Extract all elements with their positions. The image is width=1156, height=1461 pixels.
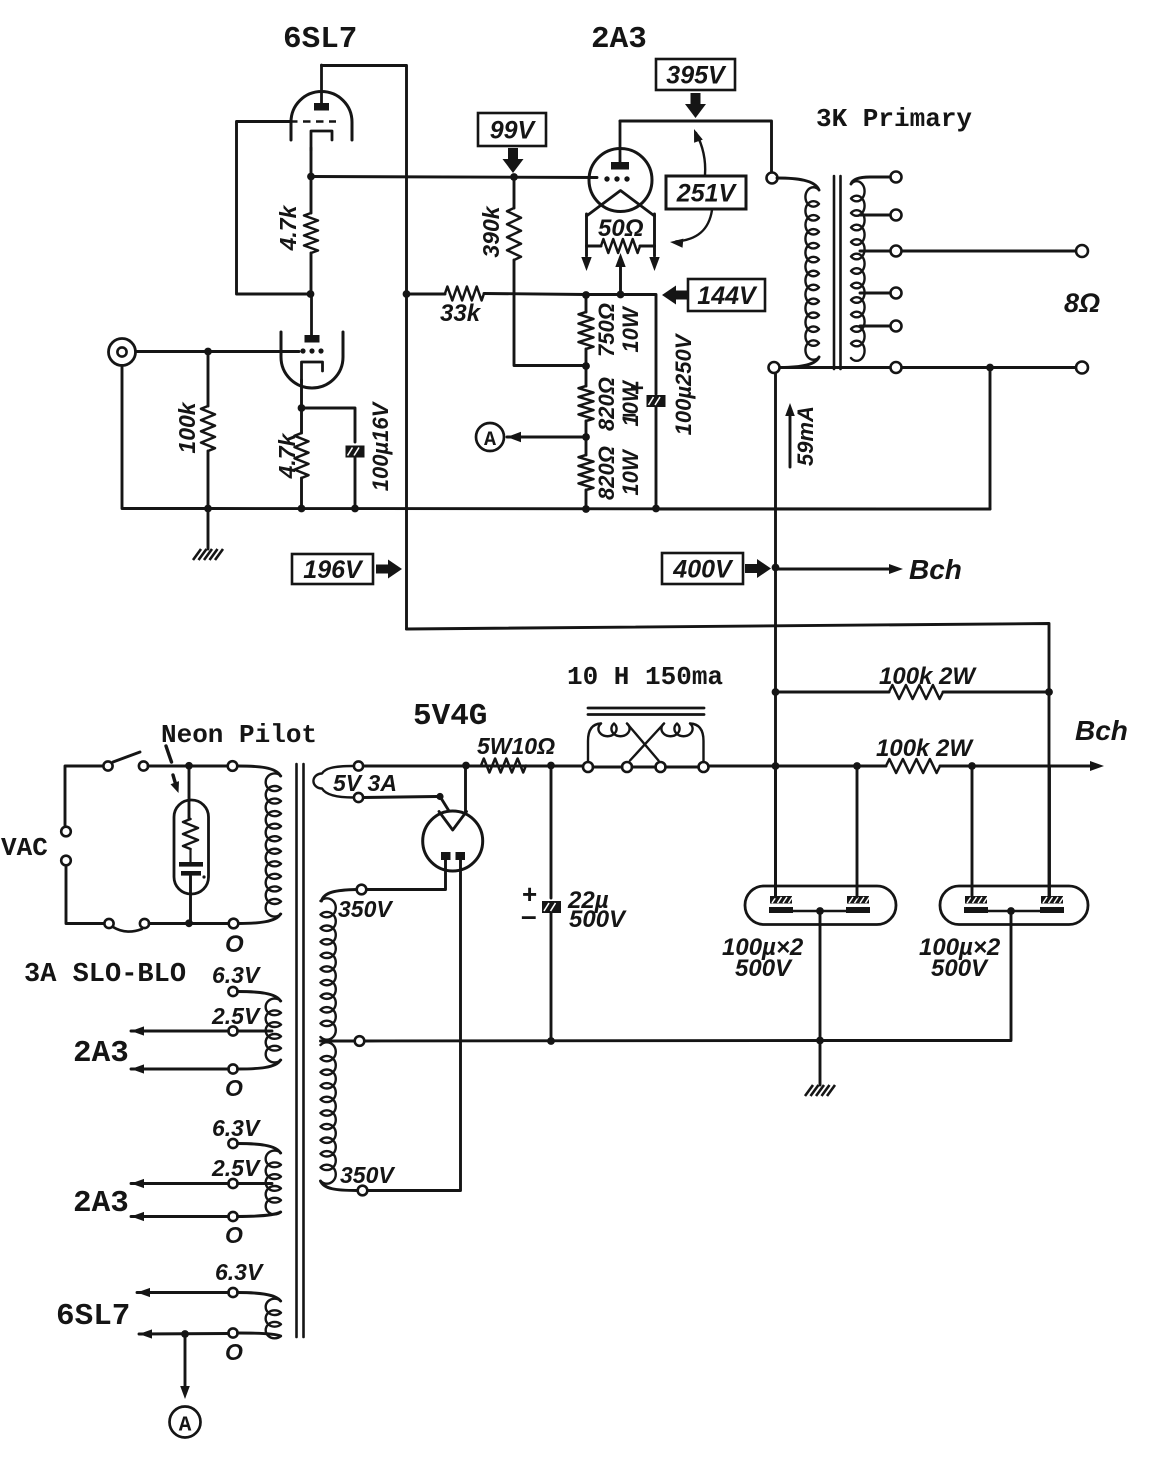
svg-text:–: – — [521, 900, 537, 931]
wire B+ continues down — [774, 568, 777, 899]
resistor 100k2W lower — [886, 759, 940, 773]
svg-text:Neon Pilot: Neon Pilot — [161, 720, 317, 750]
junction upper 100k2W right — [1045, 688, 1053, 696]
wire cathode rail y294 — [586, 295, 656, 395]
svg-text:750Ω: 750Ω — [594, 303, 619, 357]
capacitor 100u16V bypass — [346, 446, 365, 458]
junction wiper/cathode rail — [617, 291, 625, 299]
tube U1b plate — [305, 335, 320, 343]
resistor 100k2W upper — [777, 691, 889, 694]
arrow 0V g1 — [131, 1064, 144, 1073]
wire 196V feed line — [407, 624, 1050, 693]
wire 400V to Bch — [776, 568, 891, 571]
svg-text:A: A — [179, 1415, 192, 1438]
OPT primary bottom lead — [780, 357, 819, 368]
terminal 350V upper — [357, 885, 367, 895]
wire 2.5V g2 tap — [238, 1182, 273, 1185]
terminal 6.3V g2 — [228, 1139, 237, 1148]
choke terminals — [583, 762, 593, 772]
junction cathode/bypass — [298, 404, 306, 412]
wire 8ohm tap out — [902, 250, 1076, 253]
ground symbol main — [207, 508, 210, 549]
tube V3 filament notch — [439, 812, 467, 831]
svg-text:100µ250V: 100µ250V — [671, 332, 696, 435]
neon lamp NE1 envelope — [174, 800, 209, 894]
svg-text:–: – — [622, 398, 636, 428]
svg-text:99V: 99V — [490, 117, 537, 145]
junction input/100k — [204, 348, 212, 356]
junction 100k bottom on ground bus — [204, 505, 212, 513]
tube U1a cathode — [311, 131, 332, 150]
wire V3 plate1 to 350V upper — [367, 860, 446, 890]
junction chain bottom — [582, 505, 590, 513]
can C2 section b — [847, 896, 869, 904]
arrow 400V right — [757, 559, 771, 578]
svg-text:5W10Ω: 5W10Ω — [477, 733, 555, 759]
T1 HV winding upper — [321, 898, 336, 1039]
junction upper 100k2W left — [772, 688, 780, 696]
junction cap bottom — [351, 505, 359, 513]
OPT sec terminal 4 — [891, 288, 902, 299]
junction meter return — [181, 1330, 189, 1338]
svg-text:4.7k: 4.7k — [274, 432, 300, 479]
can C3 section b — [1041, 896, 1063, 904]
wire ground bus y=508 — [208, 507, 990, 510]
svg-text:6SL7: 6SL7 — [283, 22, 357, 57]
junction can1 right on rail — [853, 762, 861, 770]
svg-text:50Ω: 50Ω — [598, 215, 644, 242]
wire V3 filament right to rail — [464, 766, 467, 812]
wire U1a cathode down to y176 node — [310, 148, 313, 176]
svg-text:10W: 10W — [618, 448, 643, 495]
OPT primary bottom terminal — [769, 362, 780, 373]
svg-text:6.3V: 6.3V — [215, 1259, 264, 1285]
OPT sec tap lead 3 — [860, 250, 890, 253]
arrow 2.5V g1 — [131, 1026, 144, 1035]
svg-text:6.3V: 6.3V — [212, 1115, 261, 1141]
svg-text:3A SLO-BLO: 3A SLO-BLO — [24, 960, 186, 990]
tube V3 5V4G envelope — [423, 811, 483, 871]
T1 primary top terminal — [228, 761, 238, 771]
OPT primary winding — [805, 187, 819, 359]
tube U1b 6SL7 lower triode envelope — [281, 332, 343, 388]
terminal 8ohm hot — [1076, 245, 1088, 257]
terminal 5V bottom — [354, 793, 363, 802]
wire V3 plate2 to 350V lower — [368, 860, 461, 1191]
tube U1a plate — [314, 103, 329, 111]
OPT sec tap lead 4 — [860, 292, 890, 295]
resistor 33k horizontal — [445, 287, 484, 301]
resistor 5W10ohm — [526, 765, 546, 768]
OPT sec tap lead 5 — [860, 325, 890, 328]
T1 heater w2 top lead — [238, 1144, 281, 1154]
T1 heater winding 2 — [266, 1151, 281, 1215]
junction chain mid2 (meter tap) — [582, 433, 590, 441]
svg-text:350V: 350V — [338, 896, 393, 922]
T1 heater w1 top lead — [238, 992, 281, 1002]
svg-text:196V: 196V — [303, 556, 364, 584]
OPT sec terminal 1 — [891, 172, 902, 183]
svg-text:O: O — [225, 1222, 243, 1248]
arrow filament left down — [585, 246, 588, 256]
neon lamp resistor — [183, 819, 198, 849]
wire neon top lead — [188, 766, 191, 819]
T1 primary top lead — [238, 766, 281, 776]
svg-text:2A3: 2A3 — [73, 1036, 129, 1071]
neon lamp electrodes — [189, 849, 191, 862]
wire filament left leg — [585, 214, 588, 246]
svg-text:5V4G: 5V4G — [413, 699, 487, 734]
arrow hum wiper up — [619, 262, 622, 294]
junction B+ on rail — [772, 762, 780, 770]
wire cathode node to bypass cap — [302, 408, 356, 442]
can C2 outline — [745, 886, 896, 925]
arrow 0V g2 — [131, 1212, 144, 1221]
can C3 outline — [940, 886, 1088, 925]
svg-text:Bch: Bch — [1075, 715, 1128, 746]
wire secondary bottom line — [780, 366, 1075, 369]
resistor 50ohm hum balance — [587, 245, 602, 248]
curved arrow 251V to filament — [676, 210, 712, 242]
wire filament right leg — [653, 214, 656, 246]
svg-text:500V: 500V — [931, 955, 989, 982]
wire grid line y=176 to 2A3 grid — [311, 177, 597, 178]
can C3 section a — [965, 896, 987, 904]
svg-text:100k 2W: 100k 2W — [879, 663, 977, 690]
T1 HV center tap lead — [321, 1040, 355, 1043]
arrow 99V down — [503, 159, 524, 173]
arrow 196V right — [388, 560, 402, 579]
T1 heater w2 bottom lead — [238, 1212, 281, 1217]
T1 heater w1 bottom lead — [238, 1060, 281, 1069]
T1 HV winding lower — [321, 1042, 336, 1183]
tube U1a 6SL7 upper triode envelope — [291, 91, 352, 140]
arrow 144V left — [662, 286, 676, 305]
terminal 0V g1 — [228, 1064, 237, 1073]
choke core — [588, 707, 704, 710]
OPT sec terminal 3 — [891, 246, 902, 257]
wire secondary return to ground bus — [656, 368, 990, 510]
junction can2 left on rail — [968, 762, 976, 770]
dashed pointer to neon — [166, 746, 172, 762]
resistor 820ohm 10W upper — [585, 366, 588, 386]
tube V3 plates — [441, 852, 451, 860]
voltage box 395V — [656, 59, 735, 90]
terminal HV center tap — [355, 1036, 365, 1046]
T1 heater w3 top lead — [238, 1293, 281, 1302]
junction rectifier filament tap — [462, 762, 470, 770]
tube U1b grid dots — [300, 348, 305, 353]
arrow meter to chain — [507, 432, 521, 442]
terminal 6.3V g3 — [228, 1288, 237, 1297]
choke winding left — [588, 724, 601, 763]
junction chain top — [582, 291, 590, 299]
choke winding right — [690, 724, 704, 763]
wire 2A3 plate top rail — [620, 121, 772, 172]
resistor 820ohm 10W lower — [585, 437, 588, 455]
junction chain mid1 (390k tap) — [582, 362, 590, 370]
wire top to transformer — [148, 765, 227, 768]
junction 400V node — [772, 564, 780, 572]
svg-text:3K Primary: 3K Primary — [816, 104, 972, 134]
wire 5V bottom to rectifier — [364, 797, 438, 798]
capacitor 22u500V — [542, 901, 561, 913]
T1 5V winding — [313, 766, 353, 798]
T1 HV top lead — [322, 890, 357, 902]
switch S1b — [104, 919, 113, 928]
svg-text:395V: 395V — [666, 62, 727, 90]
can C3 common bar — [987, 910, 1042, 912]
arrow to meter A — [184, 1334, 187, 1390]
arrow 59mA — [789, 410, 792, 467]
svg-text:6SL7: 6SL7 — [56, 1299, 130, 1334]
voltage box 251V — [666, 176, 746, 209]
terminal 0V g2 — [228, 1212, 237, 1221]
terminal VAC bottom — [61, 856, 71, 866]
svg-text:33k: 33k — [440, 300, 482, 327]
tube V2 grid dots — [604, 176, 609, 181]
voltage box 99V — [478, 113, 546, 146]
wire B+ from OPT down — [774, 373, 777, 568]
svg-text:820Ω: 820Ω — [594, 446, 619, 500]
wire CT ground rail — [365, 1039, 827, 1042]
can C2 section a — [770, 896, 792, 904]
svg-text:500V: 500V — [569, 906, 627, 933]
arrow filament right down — [653, 246, 656, 256]
wire can C3 leads — [971, 766, 974, 897]
wire y294 node line with 33k — [407, 293, 446, 296]
svg-text:100µ16V: 100µ16V — [368, 400, 393, 491]
svg-text:251V: 251V — [676, 180, 738, 208]
junction 196V riser / 33k — [403, 290, 411, 298]
can C2 common bar — [792, 910, 847, 912]
wire 22u drop — [550, 766, 553, 898]
svg-text:2.5V: 2.5V — [211, 1155, 261, 1181]
svg-text:144V: 144V — [697, 282, 758, 310]
svg-text:2A3: 2A3 — [73, 1186, 129, 1221]
junction secondary return — [986, 364, 994, 372]
junction U1a cathode node — [307, 173, 315, 181]
svg-text:5V 3A: 5V 3A — [333, 770, 397, 796]
svg-text:100k: 100k — [174, 401, 200, 453]
resistor 390k vertical — [513, 177, 516, 208]
arrow 395V down — [685, 104, 706, 118]
curved arrow 251V to plate rail — [696, 133, 705, 175]
svg-text:59mA: 59mA — [793, 406, 818, 466]
meter circle A bottom — [170, 1407, 201, 1438]
resistor 4.7k (SRPP cathode) vertical — [310, 176, 313, 213]
OPT secondary winding — [851, 181, 865, 361]
svg-text:O: O — [225, 1075, 243, 1101]
junction 100u250V bottom — [652, 505, 660, 513]
svg-text:8Ω: 8Ω — [1064, 288, 1100, 318]
terminal 5V top — [354, 761, 363, 770]
junction 4.7k bottom — [298, 505, 306, 513]
wire can C3 to ground rail — [826, 911, 1011, 1041]
terminal VAC top — [61, 827, 71, 837]
wire bottom to transformer — [149, 922, 228, 925]
arrow Bch lower — [1090, 761, 1104, 771]
junction 22u on rail — [547, 1037, 555, 1045]
OPT core — [833, 176, 836, 369]
resistor 4.7k cathode vertical — [300, 408, 303, 433]
svg-text:A: A — [484, 429, 496, 452]
svg-text:400V: 400V — [672, 556, 734, 584]
T1 primary bottom lead — [239, 914, 281, 924]
capacitor 100u250V — [647, 395, 666, 407]
junction lower-plate node — [307, 290, 315, 298]
arrow 0V g3 — [139, 1329, 152, 1338]
svg-text:10 H 150ma: 10 H 150ma — [567, 662, 723, 692]
wire U1a grid to lower plate node (left loop) — [237, 122, 309, 295]
tube U1a grid (dashed) — [290, 120, 336, 123]
voltage box 144V — [688, 279, 765, 311]
svg-text:O: O — [225, 1339, 243, 1365]
terminal 6.3V g1 — [228, 987, 237, 996]
T1 primary winding — [266, 773, 281, 916]
OPT primary top terminal — [767, 173, 778, 184]
switch S1a — [103, 761, 112, 770]
terminal 2.5V g2 — [228, 1179, 237, 1188]
tube V2 plate — [611, 162, 629, 170]
T1 primary bottom terminal — [229, 919, 239, 929]
svg-text:2.5V: 2.5V — [211, 1003, 261, 1029]
svg-text:6.3V: 6.3V — [212, 962, 261, 988]
meter circle A — [476, 423, 504, 451]
wire mains bottom — [66, 866, 104, 924]
junction 390k top on grid line — [510, 173, 518, 181]
OPT primary top lead — [777, 178, 819, 190]
svg-text:VAC: VAC — [1, 833, 48, 863]
junction 22u cap tap — [547, 762, 555, 770]
svg-text:Bch: Bch — [909, 554, 962, 585]
T1 heater winding 3 — [266, 1299, 281, 1339]
terminal 350V lower — [358, 1186, 368, 1196]
arrow 6.3V g3 — [137, 1288, 150, 1297]
wire neon bottom lead — [189, 876, 192, 923]
wire input to U1b grid — [136, 350, 299, 353]
OPT sec terminal 2 — [891, 210, 902, 221]
wire can C2 leads — [774, 766, 777, 897]
voltage box 196V — [292, 554, 373, 584]
wire B rail — [709, 765, 887, 768]
svg-text:390k: 390k — [478, 205, 504, 257]
resistor 750ohm 10W — [585, 295, 588, 312]
junction neon bottom — [185, 919, 193, 927]
wire can C2 to ground rail — [819, 911, 822, 1041]
svg-text:820Ω: 820Ω — [594, 377, 619, 431]
svg-text:O: O — [225, 931, 244, 958]
wire plate of U1a to top rail — [322, 64, 407, 67]
OPT sec tap lead 2 — [860, 214, 890, 217]
junction cans ground — [816, 1037, 824, 1045]
input jack J1 — [109, 339, 136, 366]
tube V2 filament — [587, 191, 655, 217]
svg-text:2A3: 2A3 — [591, 22, 647, 57]
T1 heater w3 bottom lead — [238, 1333, 281, 1336]
wire vertical 196V supply riser x=406 — [405, 66, 408, 630]
OPT sec terminal 6 — [891, 362, 902, 373]
terminal 0V g3 — [228, 1328, 237, 1337]
wire rectifier output rail — [364, 765, 584, 768]
arrow 2.5V g2 — [131, 1179, 144, 1188]
OPT secondary top lead — [851, 177, 890, 184]
svg-text:350V: 350V — [340, 1162, 395, 1188]
resistor 100k grid-leak vertical — [207, 352, 210, 406]
arrow Bch upper — [889, 564, 903, 574]
OPT sec terminal 5 — [891, 321, 902, 332]
wire front-end filter drop — [1048, 692, 1051, 898]
wire 2.5V g1 tap — [238, 1030, 273, 1033]
terminal 2.5V g1 — [228, 1026, 237, 1035]
svg-text:4.7k: 4.7k — [275, 204, 301, 251]
svg-text:100k 2W: 100k 2W — [876, 735, 974, 762]
T1 heater winding 1 — [266, 999, 281, 1063]
svg-text:10W: 10W — [618, 305, 643, 352]
svg-text:500V: 500V — [735, 955, 793, 982]
tube V2 2A3 envelope — [589, 149, 652, 212]
voltage box 400V — [662, 553, 743, 584]
tube U1b cathode — [302, 362, 323, 382]
wire rail to Bch — [940, 765, 1097, 768]
wire choke interconnect — [593, 766, 622, 769]
T1 HV bottom lead — [321, 1181, 358, 1191]
wire mains top — [65, 766, 103, 826]
ground symbol PSU — [819, 1041, 822, 1086]
T1 core — [295, 764, 298, 1337]
wire U1b cathode lead down — [300, 380, 303, 408]
terminal 8ohm common — [1076, 362, 1088, 374]
junction neon top — [185, 762, 193, 770]
wire jack sleeve down to ground bus — [122, 366, 208, 509]
